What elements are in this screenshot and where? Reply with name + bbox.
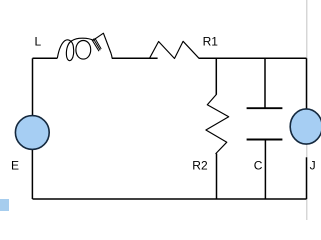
svg-text:C: C — [254, 158, 263, 172]
svg-text:R1: R1 — [203, 34, 219, 48]
svg-text:E: E — [11, 158, 19, 172]
svg-text:R2: R2 — [192, 158, 208, 172]
svg-text:L: L — [35, 35, 42, 49]
svg-text:J: J — [310, 159, 316, 173]
